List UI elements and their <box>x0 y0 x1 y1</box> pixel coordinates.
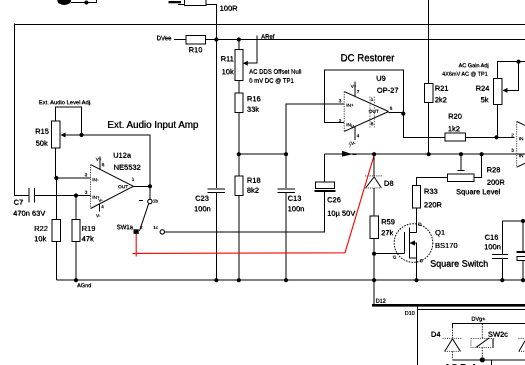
svg-text:100R: 100R <box>220 4 239 13</box>
diode D4 <box>443 327 462 360</box>
junction C16 top wire <box>521 219 525 223</box>
junction R18 ground <box>237 278 241 282</box>
value label 100R <box>220 4 239 13</box>
svg-text:470n 63V: 470n 63V <box>13 209 45 218</box>
svg-text:1: 1 <box>371 97 374 103</box>
svg-text:8: 8 <box>371 121 374 127</box>
svg-text:2: 2 <box>85 172 88 178</box>
wire R24 bottom <box>497 105 499 138</box>
value 200R <box>487 178 506 187</box>
value 5k <box>481 95 489 104</box>
value 1k2 <box>448 124 460 133</box>
wire R21 to rail <box>428 103 430 155</box>
svg-text:R24: R24 <box>476 84 490 93</box>
svg-text:Q1: Q1 <box>435 228 445 237</box>
svg-text:R11: R11 <box>221 54 234 63</box>
svg-text:100n: 100n <box>194 204 211 213</box>
svg-text:10k: 10k <box>222 67 234 76</box>
svg-text:U9: U9 <box>376 74 386 83</box>
resistor R21 <box>425 83 433 102</box>
svg-text:D8: D8 <box>384 179 394 188</box>
wire resistor to vertical <box>206 5 217 25</box>
net label ARef <box>257 35 275 41</box>
svg-text:R22: R22 <box>34 224 48 233</box>
value BS170 <box>435 241 458 250</box>
svg-text:8k2: 8k2 <box>247 186 259 195</box>
ground rail AGnd <box>56 279 525 281</box>
junction D8 top <box>372 152 376 156</box>
wire U12a IN- from R15 <box>56 177 90 179</box>
label D8 <box>384 179 394 188</box>
capacitor C16 <box>492 221 525 280</box>
junction R19 top <box>74 193 78 197</box>
label C16 <box>485 233 499 242</box>
wire DVg+ distribution <box>453 324 525 339</box>
svg-text:D: D <box>418 222 422 228</box>
svg-text:1k2: 1k2 <box>448 124 460 133</box>
connector blob top-left <box>57 0 71 5</box>
svg-text:33k: 33k <box>247 105 259 114</box>
svg-text:SW2c: SW2c <box>488 330 508 339</box>
svg-text:BS170: BS170 <box>435 241 458 250</box>
svg-text:SW1a: SW1a <box>117 225 134 231</box>
wire U9 input IN+ from C13 node <box>286 104 344 154</box>
junction R59 ground <box>372 278 376 282</box>
svg-text:DVee: DVee <box>157 36 172 42</box>
junction R19 ground <box>74 278 78 282</box>
svg-text:G: G <box>393 255 397 261</box>
value 100n <box>194 204 211 213</box>
svg-text:100n: 100n <box>484 242 501 251</box>
title Ext. Audio Input Amp <box>107 120 199 131</box>
lower box frame <box>418 305 525 365</box>
svg-text:4: 4 <box>101 204 104 210</box>
svg-text:Ext. Audio Level Adj.: Ext. Audio Level Adj. <box>39 100 92 106</box>
junction C23 ground <box>214 278 218 282</box>
junction R11 top <box>237 37 241 41</box>
svg-text:IN: IN <box>519 136 524 142</box>
svg-text:3: 3 <box>339 98 342 104</box>
wire to digital bus <box>373 280 375 305</box>
junction C13 ground <box>284 278 288 282</box>
net label DVg+ <box>471 317 485 323</box>
label fragment above resistor <box>169 1 182 3</box>
label R21 <box>435 84 449 93</box>
svg-text:10µ 50V: 10µ 50V <box>327 209 355 218</box>
value 470n 63V <box>13 209 45 218</box>
svg-text:IN: IN <box>519 153 524 159</box>
svg-text:2: 2 <box>140 225 143 231</box>
svg-text:10k: 10k <box>34 234 46 243</box>
frame top edge <box>14 23 525 25</box>
junction U9 output <box>401 112 405 116</box>
resistor (top, partial) <box>178 0 206 6</box>
junction R24 wiper <box>516 60 520 64</box>
junction SW2c bottom <box>480 357 485 362</box>
svg-text:6: 6 <box>390 106 393 112</box>
note AC Gain Adj <box>459 63 489 69</box>
svg-text:R10: R10 <box>189 45 203 54</box>
op-amp U8 (partial, right edge) <box>511 122 525 168</box>
svg-text:4: 4 <box>357 133 360 139</box>
junction R20/R24 <box>494 135 498 139</box>
label R20 <box>448 112 462 121</box>
title DC Restorer <box>340 53 395 64</box>
wire U9 output <box>389 112 404 114</box>
label R24 <box>476 84 490 93</box>
diode D5 (partial right edge) <box>518 338 525 351</box>
node junction on blob wire <box>84 1 88 5</box>
wire wiper to feedback <box>82 135 151 201</box>
net label D12 <box>376 299 386 305</box>
svg-text:AC DDS Offset Null: AC DDS Offset Null <box>249 70 301 76</box>
wire R11 to R16 <box>238 80 240 93</box>
svg-text:AGnd: AGnd <box>77 283 91 289</box>
junction R28 wiper rail <box>459 152 463 156</box>
switch SW1a <box>117 186 165 234</box>
svg-text:3: 3 <box>85 190 88 196</box>
value 100n <box>288 204 305 213</box>
junction C16 ground <box>500 278 504 282</box>
svg-text:5k: 5k <box>481 95 489 104</box>
value 220R <box>424 200 443 209</box>
value 27k <box>381 228 393 237</box>
svg-text:R18: R18 <box>247 176 261 185</box>
capacitor C13 <box>277 154 295 280</box>
svg-text:27k: 27k <box>381 228 393 237</box>
value 33k <box>247 105 259 114</box>
label R19 <box>82 224 96 233</box>
junction R28 right rail <box>480 152 484 156</box>
capacitor C7 <box>14 188 76 203</box>
svg-text:ARef: ARef <box>261 35 275 41</box>
junction Q1 source ground <box>414 278 418 282</box>
svg-text:IN-: IN- <box>92 177 99 183</box>
node R16/R18/C13 wire <box>239 153 286 155</box>
wire R16 bottom to node <box>238 113 240 155</box>
svg-text:1b: 1b <box>153 198 159 204</box>
potentiometer R15 <box>51 107 81 148</box>
svg-text:OUT: OUT <box>369 109 379 115</box>
capacitor C26 electrolytic <box>315 154 336 191</box>
svg-text:Ext. Audio Input Amp: Ext. Audio Input Amp <box>107 120 199 131</box>
resistor R19 <box>72 196 80 281</box>
svg-text:NE5532: NE5532 <box>114 163 141 172</box>
potentiometer R24 <box>494 62 525 105</box>
junction R10/vertical <box>214 37 218 41</box>
flow arrow on rail <box>342 151 357 157</box>
svg-text:IN+: IN+ <box>346 103 354 109</box>
capacitor at right edge (partial electrolytic) <box>517 221 525 280</box>
signal rail to square circuit <box>325 153 525 155</box>
value 2k2 <box>435 95 447 104</box>
resistor R33 <box>412 185 420 232</box>
wire R10 to rail <box>205 39 216 41</box>
value 100n <box>484 242 501 251</box>
svg-text:R15: R15 <box>35 127 49 136</box>
label R16 <box>247 94 261 103</box>
svg-text:C13: C13 <box>288 194 302 203</box>
svg-text:R21: R21 <box>435 84 449 93</box>
svg-text:D4: D4 <box>431 330 441 339</box>
transistor Q1 BS170 <box>374 222 433 280</box>
wire R22 bottom to ground rail <box>55 242 57 281</box>
svg-text:C26: C26 <box>327 195 341 204</box>
resistor R16 <box>235 93 243 113</box>
svg-text:DVg+: DVg+ <box>471 317 485 323</box>
red highlighted wire <box>133 155 375 256</box>
bus line (thick) <box>372 304 525 307</box>
svg-text:7: 7 <box>357 89 360 95</box>
wire U9 feedback loop <box>324 70 403 122</box>
svg-text:DC Restorer: DC Restorer <box>340 53 395 64</box>
junction output node <box>148 184 152 188</box>
svg-text:100n: 100n <box>288 204 305 213</box>
label SW2c <box>488 330 508 339</box>
label C23 <box>195 194 209 203</box>
svg-text:S: S <box>420 258 423 264</box>
junction right cap ground <box>521 278 525 282</box>
note Square Level <box>456 187 501 196</box>
wire R15 bottom <box>55 148 57 178</box>
value 47k <box>82 234 94 243</box>
svg-text:OP-27: OP-27 <box>377 86 399 95</box>
note AC DDS Offset Null <box>249 70 301 76</box>
resistor R10 <box>186 35 205 44</box>
junction C13 top <box>284 152 288 156</box>
svg-text:Square Level: Square Level <box>456 187 501 196</box>
label R22 <box>34 224 48 233</box>
junction R18 top <box>237 152 241 156</box>
junction R21 bottom rail <box>427 152 431 156</box>
resistor R22 <box>52 220 60 242</box>
svg-text:D10: D10 <box>405 311 415 317</box>
svg-text:C23: C23 <box>195 194 209 203</box>
label C26 <box>327 195 341 204</box>
diode D8 <box>365 154 382 216</box>
label D4 <box>431 330 441 339</box>
svg-text:R28: R28 <box>487 165 501 174</box>
svg-text:C7: C7 <box>14 198 24 207</box>
net label DVee <box>157 36 187 42</box>
wire U12a output <box>133 185 150 187</box>
svg-text:0 mV DC @ TP1: 0 mV DC @ TP1 <box>249 79 294 85</box>
svg-text:Square Switch: Square Switch <box>430 259 488 269</box>
net label D10 <box>405 311 415 317</box>
value 10k <box>34 234 46 243</box>
svg-text:D12: D12 <box>376 299 386 305</box>
svg-text:V-: V- <box>96 213 101 219</box>
junction wiper node <box>79 133 83 137</box>
wire D4/SW2c bottom <box>453 360 525 365</box>
svg-text:U12a: U12a <box>113 151 132 160</box>
resistor R18 <box>235 154 243 280</box>
potentiometer R11 <box>235 40 257 81</box>
text fragment bottom (clipped) <box>444 363 476 365</box>
value 8k2 <box>247 186 259 195</box>
note 4X6mV AC @ TP1 <box>442 72 488 78</box>
note Ext. Audio Level Adj. <box>39 100 92 106</box>
wire from blob <box>71 0 96 3</box>
svg-text:R19: R19 <box>82 224 96 233</box>
wire SW1a pos2 to C26 <box>165 191 325 232</box>
svg-text:V-: V- <box>351 141 356 147</box>
resistor R20 <box>445 133 466 141</box>
value 10u 50V <box>327 209 355 218</box>
svg-text:1c: 1c <box>153 225 159 231</box>
label C7 <box>14 198 24 207</box>
label R18 <box>247 176 261 185</box>
svg-text:3: 3 <box>511 148 514 154</box>
vertical wire from top to R21 <box>428 0 430 83</box>
svg-text:R20: R20 <box>448 112 462 121</box>
potentiometer R28 <box>417 154 482 185</box>
frame left edge <box>13 24 15 196</box>
label R59 <box>381 217 395 226</box>
wire R15 node down to R22 <box>55 178 57 220</box>
junction R15/R22/IN- <box>54 176 58 180</box>
svg-text:R59: R59 <box>381 217 395 226</box>
op-amp U12a NE5532 <box>85 151 141 220</box>
svg-text:1: 1 <box>132 177 135 183</box>
svg-text:2: 2 <box>511 132 514 138</box>
svg-text:200R: 200R <box>487 178 506 187</box>
svg-text:R16: R16 <box>247 94 261 103</box>
svg-text:V+: V+ <box>96 157 102 163</box>
svg-text:4X6mV AC @ TP1: 4X6mV AC @ TP1 <box>442 72 488 78</box>
switch SW2c <box>471 338 493 360</box>
label Q1 <box>435 228 445 237</box>
net label AGnd <box>77 283 91 289</box>
label R33 <box>424 187 438 196</box>
note 0 mV DC @ TP1 <box>249 79 294 85</box>
svg-text:50k: 50k <box>36 139 48 148</box>
wire C7 to U12a IN+ <box>76 195 91 197</box>
vertical wire x=216.4 top to C23 <box>215 24 217 189</box>
capacitor C23 <box>208 189 226 280</box>
svg-text:AC Gain Adj: AC Gain Adj <box>459 63 489 69</box>
label R28 <box>487 165 501 174</box>
top rail ARef <box>216 39 525 41</box>
svg-text:C16: C16 <box>485 233 499 242</box>
title Square Switch <box>430 259 488 269</box>
svg-text:OUT: OUT <box>118 184 128 190</box>
svg-text:V+: V+ <box>351 84 357 90</box>
value 50k <box>36 139 48 148</box>
wire output down to R20 <box>403 114 445 138</box>
svg-text:8: 8 <box>102 162 105 168</box>
label R10 <box>189 45 203 54</box>
op-amp U9 OP-27 <box>339 74 399 147</box>
svg-text:2: 2 <box>339 118 342 124</box>
label C13 <box>288 194 302 203</box>
label R15 <box>35 127 49 136</box>
junction gate node <box>372 252 376 256</box>
svg-text:V-: V- <box>98 198 103 204</box>
wire R20 to node <box>466 136 515 138</box>
flag glyph above arrow <box>349 142 351 148</box>
svg-text:R33: R33 <box>424 187 438 196</box>
svg-text:220R: 220R <box>424 200 443 209</box>
label R11 <box>221 54 234 63</box>
value 10k <box>222 67 234 76</box>
svg-text:2k2: 2k2 <box>435 95 447 104</box>
resistor R59 <box>370 216 378 280</box>
svg-text:47k: 47k <box>82 234 94 243</box>
